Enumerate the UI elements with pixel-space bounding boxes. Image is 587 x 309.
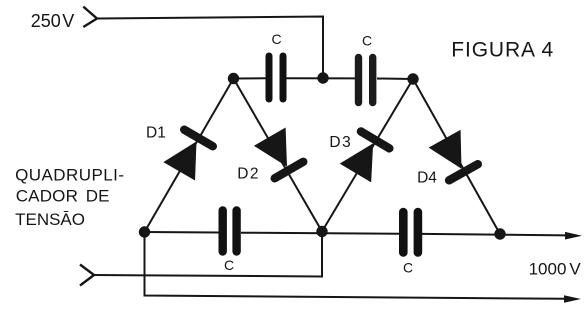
wire top row cap to C [377,78,413,81]
svg-text:QUADRUPLI-: QUADRUPLI- [15,165,124,184]
svg-text:D2: D2 [237,166,260,183]
diode D3 [340,131,391,183]
svg-text:C: C [403,260,413,276]
capacitor C bottom-left plates [223,211,237,252]
svg-text:250V: 250V [31,11,75,31]
wire bottom row cap to F to arrow [422,234,566,236]
svg-text:1000V: 1000V [529,259,582,278]
node F [494,228,505,239]
arrow output 1000V [565,232,582,240]
capacitor C top-left plates [269,56,283,99]
input arrow 250V [83,7,97,27]
capacitor C bottom-right plates [403,212,418,253]
arrow bottom return [564,295,581,303]
wire bottom return line [145,232,566,299]
svg-text:CADOR: CADOR [16,186,78,205]
diode D4 [429,130,480,181]
wire top row cap to B to cap [286,77,355,79]
svg-text:TENSĀO: TENSĀO [15,210,85,229]
svg-text:FIGURA 4: FIGURA 4 [451,38,554,61]
wire bottom row cap to E to cap [241,233,399,234]
wire D3 diagonal [322,79,413,232]
node A [228,73,239,84]
svg-text:DE: DE [86,186,110,205]
node D [139,226,150,237]
wire D4 diagonal [413,79,500,234]
wire input 2 to node E [94,232,322,277]
node B [317,72,328,83]
wire bottom row D to cap [145,231,220,234]
node E [316,226,327,237]
wire top input line to node B [97,17,323,79]
svg-text:C: C [224,257,234,273]
diode D1 [163,129,214,181]
node C [407,73,418,84]
diode D2 [254,128,305,180]
wire top row A to cap [234,77,267,79]
svg-text:D3: D3 [329,134,352,151]
input arrow lower [80,265,94,286]
svg-text:D1: D1 [146,125,166,142]
svg-text:C: C [362,33,372,49]
capacitor C top-right plates [359,58,373,103]
svg-text:C: C [272,31,282,47]
wire D2 diagonal [234,79,323,232]
svg-text:D4: D4 [417,170,437,187]
wire D1 diagonal [145,79,234,233]
